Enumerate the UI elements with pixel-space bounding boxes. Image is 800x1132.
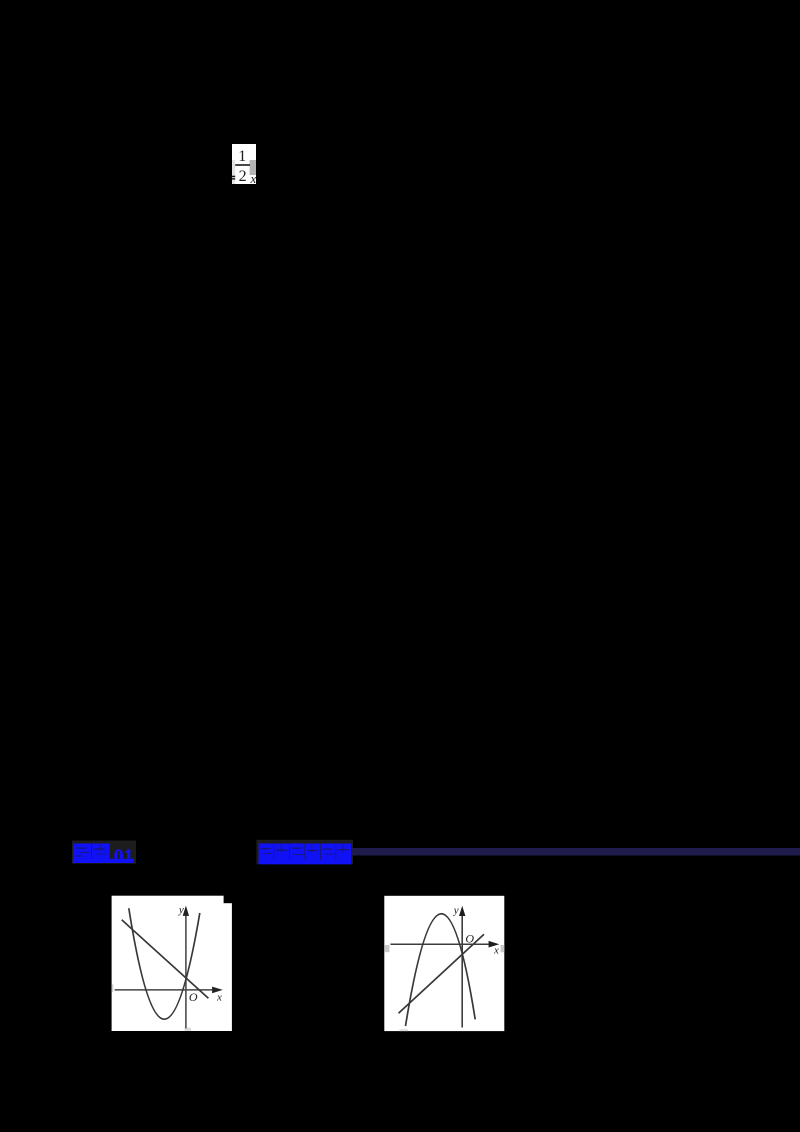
svg-text:x: x	[250, 171, 257, 186]
graph1 bottom gray smudge	[185, 1028, 192, 1031]
graph1 parabola	[129, 908, 200, 1019]
svg-text:O: O	[189, 990, 198, 1004]
graph2 x-axis arrowhead	[489, 941, 500, 948]
graph2 y-axis	[461, 915, 463, 1028]
graph1 white background	[112, 896, 224, 1031]
graph2 right edge gray mark	[501, 945, 505, 952]
graph1 x-axis	[115, 989, 214, 991]
formula right gray block	[250, 160, 256, 175]
blue heading row	[0, 830, 800, 875]
graph image 2 (downward parabola with ascending line)	[384, 895, 505, 1032]
graph2 x-axis	[390, 943, 489, 945]
heading 2 pseudo-char 5	[321, 844, 336, 861]
svg-text:x: x	[493, 945, 499, 957]
svg-text:01: 01	[114, 846, 134, 867]
heading highlight box 2	[256, 840, 353, 865]
heading 1 pseudo-char 1	[73, 844, 91, 860]
formula snippet "= 1/2 x" (partially visible math image)	[226, 138, 262, 190]
heading 1 pseudo-char 2	[92, 844, 110, 860]
svg-text:1: 1	[238, 148, 246, 165]
graph2 white background	[384, 896, 504, 1031]
graph2 bottom gray smudge	[400, 1029, 409, 1031]
graph1 y-axis arrowhead	[183, 906, 189, 916]
graph1 y-axis	[185, 915, 187, 1029]
graph1 x-axis arrowhead	[212, 987, 223, 994]
heading highlight box 1	[72, 841, 136, 864]
graph2 y-axis arrowhead	[459, 906, 465, 916]
heading 2 pseudo-char 2	[274, 844, 289, 861]
heading 2 underline	[258, 860, 351, 865]
heading 2 pseudo-char 1	[259, 844, 274, 861]
graph2 parabola	[406, 914, 476, 1026]
heading 2 pseudo-char 6	[336, 844, 351, 861]
equals sign (clipped)	[231, 176, 235, 178]
graph2 secant line	[399, 934, 485, 1013]
graph1 left edge gray tick	[112, 984, 114, 992]
graph1 white side column	[223, 903, 232, 1031]
formula left light strip	[232, 160, 235, 184]
svg-text:y: y	[453, 905, 459, 917]
formula white background	[232, 144, 256, 184]
graph1 secant line	[122, 920, 209, 998]
svg-text:x: x	[216, 991, 222, 1003]
svg-text:2: 2	[239, 168, 247, 185]
fraction bar	[235, 164, 250, 166]
heading 1 underline	[73, 859, 134, 863]
graph image 1 (upward parabola with descending line)	[111, 895, 233, 1032]
heading 2 pseudo-char 4	[305, 844, 320, 861]
svg-text:y: y	[178, 904, 184, 916]
heading 2 pseudo-char 3	[290, 844, 305, 861]
graph2 left edge gray mark	[384, 945, 389, 952]
navy heading rule	[352, 848, 800, 856]
